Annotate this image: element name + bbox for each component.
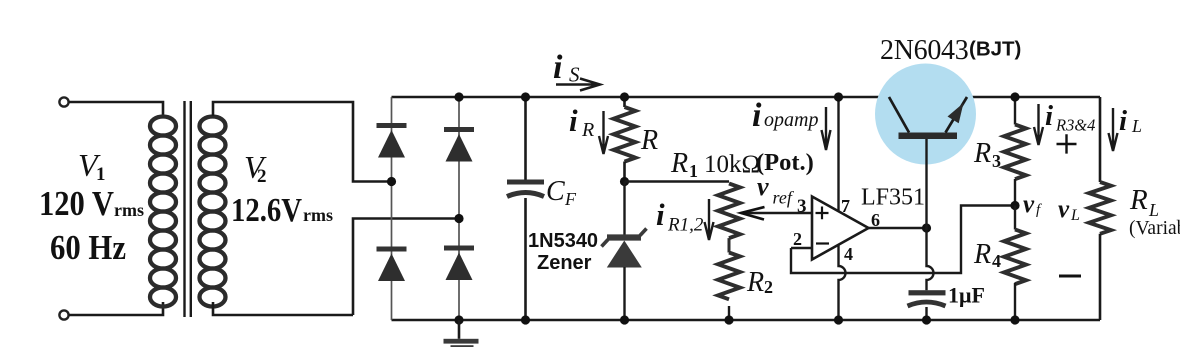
svg-text:120 V: 120 V bbox=[39, 184, 114, 223]
wire R node to pot bbox=[625, 180, 730, 182]
transistor Q1 2N6043 bbox=[889, 97, 967, 228]
node bridge left mid bbox=[387, 177, 396, 186]
svg-text:2N6043: 2N6043 bbox=[880, 35, 968, 66]
svg-text:i: i bbox=[1119, 105, 1127, 137]
node pin7 rail bbox=[834, 92, 843, 101]
arrow iR34 bbox=[1034, 104, 1043, 145]
svg-text:2: 2 bbox=[257, 166, 267, 187]
svg-text:i: i bbox=[656, 197, 665, 232]
resistor R2 bbox=[718, 253, 740, 321]
svg-text:L: L bbox=[1131, 116, 1142, 136]
node pin4 bottom bbox=[834, 315, 843, 324]
svg-text:i: i bbox=[569, 103, 578, 138]
wire bottom rail bbox=[392, 319, 1101, 322]
svg-text:2: 2 bbox=[764, 277, 773, 297]
svg-text:3: 3 bbox=[797, 196, 807, 217]
svg-text:i: i bbox=[752, 97, 762, 134]
wiper arrow bbox=[741, 212, 812, 214]
node R bottom bbox=[620, 177, 629, 186]
svg-text:1: 1 bbox=[689, 161, 698, 181]
svg-text:i: i bbox=[553, 49, 563, 86]
label plus bbox=[1057, 134, 1077, 153]
wire secondary top bbox=[213, 102, 392, 182]
potentiometer R1 bbox=[718, 184, 740, 253]
inductor primary winding bbox=[150, 117, 176, 307]
wire bridge right column bbox=[458, 97, 460, 320]
svg-text:v: v bbox=[757, 172, 769, 201]
svg-text:(Variable: (Variable bbox=[1129, 218, 1180, 239]
ground bbox=[444, 320, 479, 347]
svg-text:4: 4 bbox=[992, 251, 1001, 271]
svg-text:S: S bbox=[569, 63, 580, 87]
inductor secondary winding bbox=[200, 117, 226, 307]
svg-text:C: C bbox=[546, 176, 565, 207]
wire opamp output bbox=[869, 227, 927, 229]
svg-text:1N5340: 1N5340 bbox=[528, 230, 598, 252]
node cap bottom bbox=[922, 315, 931, 324]
wire pin4 with hop bbox=[839, 244, 846, 320]
wire primary bottom bbox=[69, 302, 163, 315]
node zener bottom bbox=[620, 315, 629, 324]
svg-text:1: 1 bbox=[96, 164, 106, 185]
arrow iS bbox=[556, 79, 600, 91]
resistor R bbox=[614, 97, 636, 182]
svg-text:R: R bbox=[640, 125, 658, 156]
node R4 bottom bbox=[1010, 315, 1019, 324]
capacitor CF bbox=[507, 97, 544, 320]
wire pin2 stub bbox=[791, 247, 812, 249]
svg-text:R: R bbox=[973, 138, 991, 169]
node CF bottom bbox=[521, 315, 530, 324]
svg-text:R3&4: R3&4 bbox=[1055, 116, 1095, 135]
arrow iL bbox=[1109, 108, 1118, 151]
svg-text:rms: rms bbox=[114, 200, 144, 220]
diode D3 bbox=[377, 249, 407, 281]
resistor R3 bbox=[1004, 97, 1026, 206]
node pot bottom bbox=[724, 315, 733, 324]
wire feedback bbox=[791, 206, 1013, 274]
svg-text:R: R bbox=[1129, 184, 1148, 216]
svg-text:rms: rms bbox=[303, 205, 333, 225]
svg-text:7: 7 bbox=[841, 196, 850, 216]
svg-text:v: v bbox=[1058, 196, 1070, 223]
node primary top terminal bbox=[59, 97, 68, 106]
resistor RL bbox=[1089, 97, 1111, 320]
svg-text:(BJT): (BJT) bbox=[969, 38, 1021, 61]
svg-text:R1,2: R1,2 bbox=[667, 215, 704, 236]
wire secondary bottom bbox=[213, 219, 459, 316]
resistor R4 bbox=[1004, 206, 1026, 321]
svg-text:F: F bbox=[564, 189, 577, 209]
svg-text:R: R bbox=[746, 267, 764, 298]
node R3 top bbox=[1010, 92, 1019, 101]
zener diode D5 1N5340 bbox=[602, 182, 647, 321]
svg-text:10kΩ: 10kΩ bbox=[704, 151, 760, 178]
node R top bbox=[620, 92, 629, 101]
transistor Q1 highlight bbox=[875, 64, 976, 165]
transformer core bbox=[183, 101, 185, 317]
node primary bottom terminal bbox=[59, 310, 68, 319]
op-amp U1 LF351 bbox=[812, 197, 869, 260]
svg-text:R: R bbox=[973, 239, 991, 270]
node bridge right bottom bbox=[454, 315, 463, 324]
capacitor 1uF bbox=[908, 228, 946, 320]
diode D2 bbox=[444, 130, 474, 162]
svg-text:ref: ref bbox=[773, 188, 795, 208]
svg-text:3: 3 bbox=[992, 151, 1001, 171]
transformer T1 highlight none bbox=[59, 97, 459, 319]
wire bridge left column bbox=[391, 97, 393, 320]
node CF top bbox=[521, 92, 530, 101]
node bridge right top bbox=[454, 92, 463, 101]
svg-text:R: R bbox=[670, 148, 688, 179]
svg-text:L: L bbox=[1148, 200, 1159, 220]
svg-text:opamp: opamp bbox=[764, 109, 818, 131]
svg-text:4: 4 bbox=[844, 244, 853, 264]
svg-text:L: L bbox=[1070, 207, 1080, 224]
label minus bbox=[1059, 275, 1081, 278]
svg-text:60 Hz: 60 Hz bbox=[50, 228, 126, 267]
svg-text:12.6V: 12.6V bbox=[231, 192, 302, 229]
arrow iopamp bbox=[822, 107, 831, 150]
diode D1 bbox=[377, 126, 407, 158]
wire primary top bbox=[69, 102, 163, 116]
svg-text:R: R bbox=[581, 119, 594, 141]
svg-text:LF351: LF351 bbox=[861, 185, 925, 211]
svg-text:v: v bbox=[1023, 191, 1035, 218]
svg-text:1μF: 1μF bbox=[948, 283, 985, 308]
svg-text:i: i bbox=[1045, 100, 1053, 132]
wire top rail bbox=[392, 96, 890, 99]
arrow iR12 bbox=[705, 199, 714, 240]
node output junction bbox=[922, 223, 931, 232]
arrow iR bbox=[599, 111, 608, 154]
node bridge right mid bbox=[454, 214, 463, 223]
svg-text:2: 2 bbox=[793, 229, 802, 249]
svg-text:Zener: Zener bbox=[537, 252, 592, 274]
diode D4 bbox=[444, 248, 474, 280]
node vf bbox=[1010, 201, 1019, 210]
wire pin7 to rail bbox=[837, 97, 839, 212]
